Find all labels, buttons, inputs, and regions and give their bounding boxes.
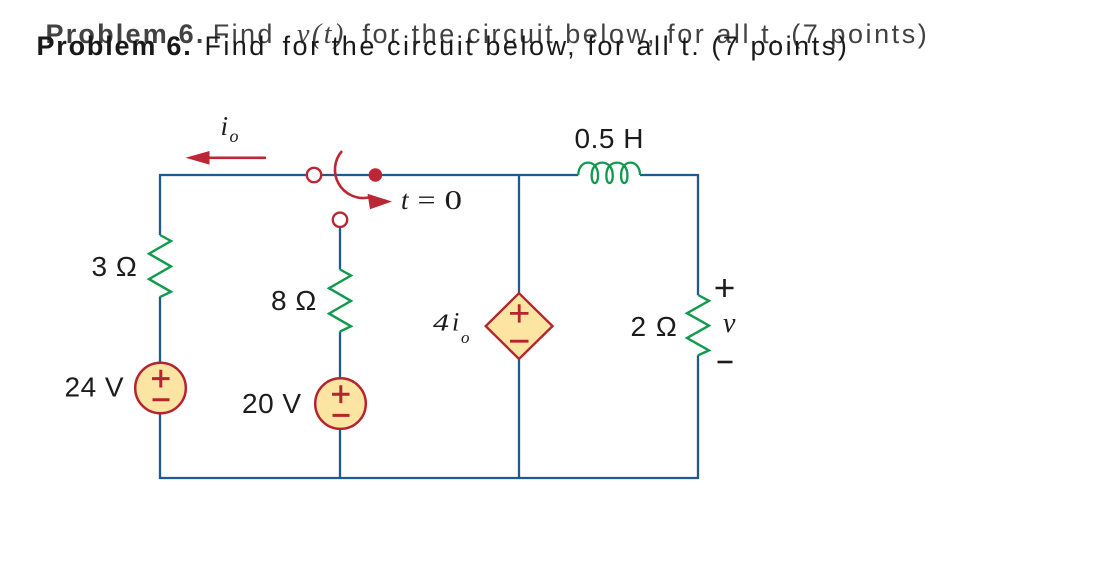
voltage source V1 24V circle [135, 363, 186, 414]
svg-text:o: o [230, 126, 239, 146]
wire: top middle segment between switch contacts and inductor [322, 174, 579, 176]
resistor R2 8 ohm [329, 270, 351, 332]
wire: dependent source to bottom rail [518, 359, 520, 478]
wire: top rail to dependent source [518, 175, 520, 293]
switch closed contact dot on top rail [369, 168, 383, 182]
wire: left branch between 3-ohm resistor and 24V source [159, 297, 161, 363]
dependent source 4io diamond [486, 293, 553, 359]
label t = 0 [401, 185, 462, 215]
svg-text:20 V: 20 V [242, 388, 302, 419]
svg-text:0.5 H: 0.5 H [575, 123, 644, 154]
svg-text:4: 4 [433, 311, 449, 337]
svg-text:for the circuit below, for all: for the circuit below, for all t. (7 poi… [283, 31, 850, 61]
V2 minus sign [333, 414, 350, 417]
dependent source minus sign [510, 340, 529, 343]
V2 plus sign [332, 385, 350, 403]
label 4io [433, 308, 470, 348]
wire: switch lower contact to 8-ohm resistor [339, 227, 341, 270]
svg-text:3 Ω: 3 Ω [92, 251, 138, 282]
dependent source plus sign [510, 304, 529, 322]
V1 plus sign [152, 370, 170, 388]
svg-text:=: = [418, 185, 436, 215]
svg-text:8 Ω: 8 Ω [271, 285, 317, 316]
resistor R1 3 ohm [149, 235, 171, 297]
svg-text:Find: Find [205, 31, 267, 61]
wire: bottom rail with left and right corners [160, 355, 698, 478]
resistor R3 2 ohm [687, 295, 709, 355]
svg-text:2 Ω: 2 Ω [631, 311, 678, 342]
label io [221, 111, 239, 146]
title text front layer: Problem 6. Find for the circuit below, for all t. (7 points) [37, 31, 850, 61]
switch open contact on top rail [307, 168, 321, 182]
current arrow io shaft [209, 157, 266, 160]
switch arc arrowhead [368, 194, 393, 210]
wire: top-left corner (left branch top to switch contact) [160, 175, 307, 235]
voltage source V2 20V circle [315, 378, 366, 429]
svg-text:t: t [401, 185, 410, 215]
title text back layer: Problem 6. Find v(t) for the circuit below, for all t. (7 points) [46, 19, 930, 50]
current arrow io head [186, 151, 210, 165]
wire: 8-ohm resistor to 20V source [339, 332, 341, 379]
V1 minus sign [153, 398, 170, 401]
svg-text:v: v [723, 308, 736, 339]
label minus terminal of v [718, 361, 733, 364]
switch motion arc [335, 151, 369, 198]
label plus terminal of v [716, 279, 734, 297]
wire: 20V source to bottom rail [339, 429, 341, 478]
svg-text:0: 0 [445, 185, 463, 215]
svg-text:i: i [452, 308, 459, 337]
switch lower open contact [333, 213, 347, 227]
svg-text:24 V: 24 V [65, 372, 125, 403]
wire: top-right corner (inductor to right branch) [640, 175, 698, 295]
svg-text:Problem 6.: Problem 6. [37, 31, 193, 61]
inductor L1 0.5 H [578, 163, 640, 183]
svg-text:i: i [221, 111, 229, 141]
svg-text:o: o [461, 328, 470, 347]
